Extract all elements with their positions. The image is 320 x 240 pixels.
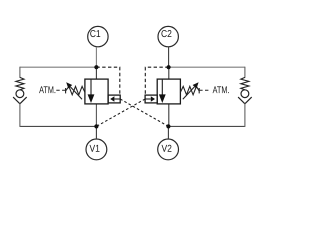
- label ATM left: [39, 86, 55, 93]
- wire V2 stem: [167, 126, 169, 139]
- vent dash to ATM left: [56, 89, 65, 91]
- wire C1 stem: [95, 47, 97, 67]
- wire left valve inlet: [95, 67, 97, 79]
- pilot box of left valve: [108, 95, 120, 103]
- right counterbalance valve body: [157, 79, 180, 104]
- spring of right rail check valve: [241, 77, 249, 90]
- node V1 junction: [94, 124, 98, 128]
- wire right valve outlet: [168, 104, 170, 127]
- flow arrow of left valve: [88, 80, 95, 103]
- wire right valve inlet: [168, 67, 170, 79]
- wire bottom-right rail: [168, 125, 245, 127]
- spring end stop of right valve: [198, 88, 200, 93]
- label ATM right: [213, 86, 229, 93]
- wire right rail upper segment: [244, 67, 246, 78]
- pilot line from C2 node to right pilot box: [145, 67, 168, 95]
- port C2: [158, 26, 178, 46]
- port C1: [88, 26, 108, 46]
- port V1: [86, 139, 107, 160]
- node V2 junction: [166, 124, 170, 128]
- ball of right rail check valve: [241, 90, 249, 98]
- cross pilot line right valve to V1 node: [96, 99, 145, 126]
- spring of right valve: [180, 86, 199, 94]
- wire top-left rail: [20, 66, 97, 68]
- wire C2 stem: [168, 47, 170, 67]
- left counterbalance valve body: [85, 79, 108, 104]
- wire left rail lower segment: [19, 103, 21, 127]
- seat of right rail check valve: [238, 97, 252, 104]
- wire V1 stem: [95, 126, 97, 139]
- cross pilot line left valve to V2 node: [120, 99, 168, 126]
- pilot box of right valve: [145, 95, 157, 103]
- wire bottom-left rail: [20, 125, 97, 127]
- flow arrow of right valve: [159, 80, 166, 103]
- wire left valve outlet: [95, 104, 97, 127]
- pilot line from C1 node to left pilot box: [96, 67, 119, 95]
- wire left rail upper segment: [19, 67, 21, 78]
- pilot arrow of right valve: [145, 96, 155, 102]
- node C2 junction: [167, 65, 171, 69]
- seat of left rail check valve: [13, 97, 27, 104]
- port V2: [158, 139, 179, 160]
- node C1 junction: [94, 65, 98, 69]
- spring end stop of left valve: [65, 88, 67, 93]
- spring of left valve: [66, 86, 85, 94]
- wire top-right rail: [169, 66, 245, 68]
- adjustment arrow of left valve: [66, 82, 82, 99]
- pilot arrow of left valve: [110, 96, 120, 102]
- spring of left rail check valve: [16, 77, 24, 90]
- wire right rail lower segment: [244, 103, 246, 127]
- adjustment arrow of right valve: [183, 82, 199, 99]
- ball of left rail check valve: [16, 90, 24, 98]
- vent dash to ATM right: [199, 89, 208, 91]
